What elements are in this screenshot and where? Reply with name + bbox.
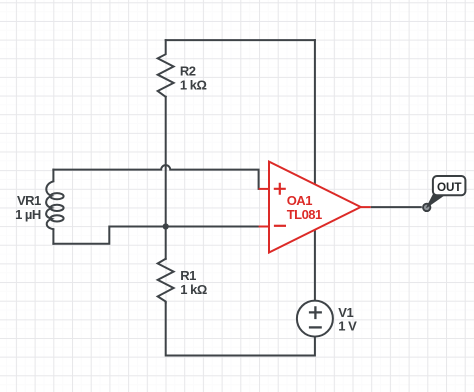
wire from inductor top to op-amp non-inverting input with hop bbox=[53, 165, 258, 189]
wire top rail from R2 top to right column bbox=[166, 39, 315, 41]
wire right column down behind op-amp to V1 top bbox=[314, 40, 316, 301]
svg-text:1 kΩ: 1 kΩ bbox=[180, 282, 207, 297]
wire op-amp output to node OUT bbox=[371, 206, 422, 208]
wire bottom rail bbox=[166, 303, 315, 356]
svg-text:1 kΩ: 1 kΩ bbox=[180, 78, 207, 93]
wire middle column R2 bottom to R1 top through junction bbox=[165, 97, 167, 259]
flag OUT box bbox=[433, 176, 466, 195]
svg-text:1 V: 1 V bbox=[338, 319, 357, 334]
inductor VR1 leads bbox=[52, 170, 54, 244]
svg-text:TL081: TL081 bbox=[287, 207, 322, 222]
resistor R2 bbox=[158, 40, 174, 97]
label R2 value bbox=[15, 64, 357, 334]
wire from inductor bottom to op-amp inverting input bbox=[53, 227, 258, 244]
svg-text:1 µH: 1 µH bbox=[15, 207, 41, 222]
junction node dot bbox=[163, 223, 169, 229]
op-amp OA1 bbox=[259, 162, 371, 253]
svg-text:R2: R2 bbox=[180, 64, 196, 79]
svg-text:R1: R1 bbox=[180, 268, 196, 283]
resistor R1 bbox=[158, 259, 174, 303]
flag OUT tail bbox=[427, 194, 445, 208]
svg-text:OA1: OA1 bbox=[287, 193, 313, 208]
inductor VR1 coil bbox=[46, 181, 63, 229]
node OUT terminal bbox=[423, 204, 430, 211]
svg-text:OUT: OUT bbox=[437, 181, 462, 194]
voltage source V1 bbox=[297, 301, 333, 337]
